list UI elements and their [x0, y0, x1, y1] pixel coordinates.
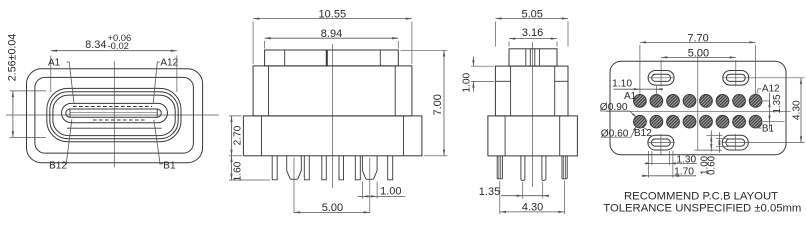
- signal pin side left: [521, 156, 525, 181]
- pcb outline: [610, 61, 786, 155]
- hole B row col 5: [700, 115, 713, 128]
- flange step left: [261, 116, 263, 156]
- dimension 10.55: [253, 9, 412, 64]
- svg-text:TOLERANCE UNSPECIFIED ±0.05mm: TOLERANCE UNSPECIFIED ±0.05mm: [603, 203, 801, 215]
- body side inner left: [510, 66, 512, 116]
- slot centerline bottom-left: [660, 134, 662, 155]
- centerline horizontal view1: [6, 114, 219, 116]
- shield slot bottom-left: [647, 135, 674, 150]
- pocket lower line: [67, 127, 162, 129]
- hole A row col 2: [650, 95, 663, 108]
- shield leg 1 view2: [287, 156, 302, 179]
- svg-text:0.60: 0.60: [707, 155, 718, 175]
- hole A row col 3: [667, 95, 680, 108]
- label A12 view4: [757, 84, 780, 95]
- flange step right: [403, 116, 405, 156]
- hole A row col 7: [733, 95, 746, 108]
- dimension 1.35 view3: [479, 182, 549, 199]
- signal pin 5 view2: [355, 156, 360, 180]
- label A1: [48, 58, 74, 104]
- label B12: [49, 119, 72, 171]
- hole A row col 1: [634, 95, 647, 108]
- hole B row col 1: [634, 115, 647, 128]
- shield slot top-left: [648, 70, 675, 85]
- body shell line right: [394, 66, 396, 116]
- dimension 2.56 ±0.04: [6, 34, 46, 138]
- svg-text:5.00: 5.00: [322, 202, 343, 214]
- body seam left: [495, 80, 510, 82]
- note line 1: [624, 190, 778, 202]
- dimension 4.30 view4: [749, 78, 805, 143]
- svg-text:1.30: 1.30: [676, 154, 696, 165]
- centerline horizontal view4: [606, 110, 791, 112]
- lid vertical right: [379, 50, 381, 66]
- hole B row col 4: [683, 115, 696, 128]
- svg-text:2.70: 2.70: [232, 125, 243, 145]
- svg-text:3.16: 3.16: [522, 27, 543, 39]
- signal pin 6 view2: [388, 156, 393, 180]
- shell lip middle: [50, 92, 178, 139]
- signal pin 2 view2: [304, 156, 309, 180]
- dimension 1.10: [612, 79, 662, 96]
- dimension 1.00 slot: [695, 131, 723, 175]
- dimension 8.34 +0.06 -0.02: [51, 32, 177, 92]
- svg-text:8.34: 8.34: [85, 39, 106, 51]
- shield leg side left: [497, 156, 502, 179]
- hole B row col 7: [733, 115, 746, 128]
- svg-text:B1: B1: [762, 124, 775, 135]
- label B1 view4: [757, 124, 775, 135]
- label diameter 0.60: [601, 125, 638, 139]
- view 1: receptacle front view: [6, 32, 219, 171]
- dimension 0.60 slot: [707, 132, 729, 175]
- hole A row col 4: [683, 95, 696, 108]
- dimension 8.94: [265, 28, 399, 49]
- svg-text:B1: B1: [163, 161, 176, 172]
- dimension 1.30: [645, 151, 697, 165]
- lid seam thick: [326, 50, 328, 66]
- dimension 1.00 view2: [358, 182, 406, 199]
- lid inner lines: [526, 49, 540, 66]
- svg-text:1.10: 1.10: [612, 79, 632, 90]
- shield leg side right: [562, 156, 567, 179]
- shield leg 2 view2: [362, 156, 377, 179]
- lid vertical left: [284, 50, 286, 66]
- svg-text:1.35: 1.35: [479, 186, 500, 198]
- shield leg centerline left view2: [293, 158, 295, 214]
- centerline vertical view3: [531, 42, 533, 187]
- svg-text:-0.02: -0.02: [108, 40, 129, 51]
- label B1: [154, 120, 176, 172]
- shield leg centerline right view2: [369, 158, 371, 214]
- svg-text:8.94: 8.94: [321, 28, 342, 40]
- dimension 3.16: [509, 27, 557, 47]
- svg-text:Ø0.90: Ø0.90: [600, 102, 628, 113]
- dimension 1.35 view4: [763, 93, 785, 130]
- svg-text:A1: A1: [624, 91, 637, 102]
- svg-text:2.56±0.04: 2.56±0.04: [6, 34, 18, 82]
- tongue end cap right: [156, 109, 158, 117]
- view 2: connector front elevation: [229, 9, 448, 214]
- body shell line left: [268, 66, 270, 116]
- hole A row col 5: [700, 95, 713, 108]
- svg-text:B12: B12: [634, 128, 652, 139]
- dimension 1.60: [229, 156, 270, 182]
- view 3: connector side elevation: [461, 8, 577, 214]
- svg-text:1.70: 1.70: [674, 166, 694, 177]
- hole A row col 8: [749, 95, 762, 108]
- slot centerline bottom-right: [734, 134, 736, 151]
- svg-text:1.00: 1.00: [461, 72, 472, 92]
- centerline vertical view2: [332, 44, 334, 188]
- svg-text:Ø0.60: Ø0.60: [601, 128, 629, 139]
- shell lip outer: [47, 88, 181, 141]
- svg-text:1.35: 1.35: [772, 94, 783, 114]
- dimension 1.00 view3: [461, 57, 494, 93]
- contact dashes upper: [73, 106, 152, 108]
- body seam right: [555, 80, 568, 82]
- svg-text:5.00: 5.00: [688, 47, 709, 59]
- dimension 5.00 view4: [661, 47, 736, 86]
- label B12 view4: [634, 127, 652, 139]
- contact dashes lower: [93, 119, 145, 121]
- outer housing outline: [27, 69, 203, 163]
- dimension 7.00: [401, 50, 448, 156]
- svg-text:7.00: 7.00: [432, 94, 444, 115]
- svg-text:7.70: 7.70: [687, 33, 708, 45]
- svg-text:B12: B12: [49, 161, 67, 172]
- hole B row col 3: [667, 115, 680, 128]
- svg-text:4.30: 4.30: [522, 202, 543, 214]
- label diameter 0.90: [600, 102, 637, 118]
- flange side: [488, 116, 578, 156]
- lid side: [509, 49, 557, 66]
- hole B row col 2: [650, 115, 663, 128]
- svg-text:10.55: 10.55: [319, 9, 347, 21]
- shell lip inner: [53, 95, 175, 136]
- shield slot top-right: [722, 70, 749, 85]
- signal pin side right: [542, 156, 546, 181]
- svg-text:4.30: 4.30: [792, 100, 803, 120]
- dimension 4.30 view3: [500, 181, 565, 214]
- main body: [253, 66, 412, 116]
- hole B row col 8: [749, 115, 762, 128]
- svg-text:5.05: 5.05: [521, 8, 542, 20]
- dimension 5.05: [495, 8, 568, 46]
- view 4: recommended PCB layout: [600, 33, 805, 215]
- signal pin 1 view2: [272, 156, 277, 180]
- centerline vertical view4: [697, 54, 699, 151]
- svg-text:A1: A1: [48, 58, 61, 69]
- shield slot bottom-right: [722, 135, 749, 150]
- dimension 2.70: [229, 116, 243, 156]
- signal pin 4 view2: [339, 156, 344, 180]
- body side: [495, 66, 568, 116]
- tongue midline: [70, 112, 157, 114]
- svg-text:1.60: 1.60: [232, 161, 243, 181]
- dimension 7.70: [640, 33, 756, 95]
- svg-text:A12: A12: [160, 58, 178, 69]
- centerline vertical view1: [113, 61, 115, 168]
- signal pin 3 view2: [322, 156, 327, 180]
- svg-text:1.00: 1.00: [380, 186, 401, 198]
- body side inner right: [554, 66, 556, 116]
- dimension 1.70: [642, 151, 696, 178]
- svg-text:RECOMMEND P.C.B LAYOUT: RECOMMEND P.C.B LAYOUT: [624, 190, 778, 202]
- top lid: [265, 50, 399, 66]
- tongue end cap left: [69, 109, 71, 117]
- hole B row col 6: [716, 115, 729, 128]
- note line 2: [603, 203, 801, 215]
- flange side inner left: [504, 116, 506, 156]
- dimension 5.00 view2: [294, 202, 370, 214]
- svg-text:A12: A12: [762, 84, 780, 95]
- label A12: [153, 58, 178, 104]
- tongue: [66, 109, 162, 117]
- opening pocket: [62, 103, 168, 122]
- flange: [243, 116, 422, 156]
- label A1 view4: [624, 91, 637, 102]
- hole A row col 6: [716, 95, 729, 108]
- flange side inner right: [559, 116, 561, 156]
- inner housing outline: [35, 77, 194, 153]
